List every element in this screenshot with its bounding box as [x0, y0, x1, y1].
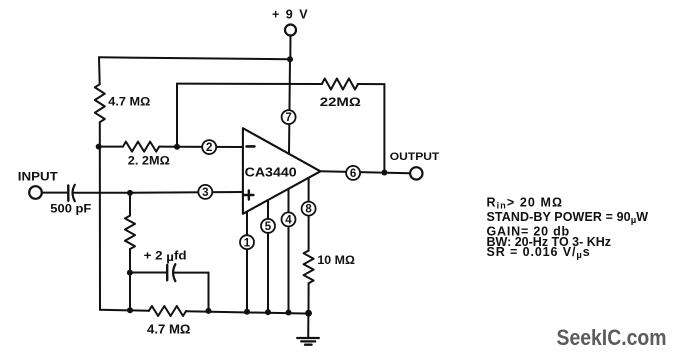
wire: left rail lower segment down to bottom rail corner — [99, 122, 101, 310]
wire: pin 4 vertical from op-amp bottom edge to rail — [288, 189, 290, 313]
wire: node down to bottom rail — [129, 273, 131, 311]
resistor 22M (horizontal, feedback) — [322, 79, 358, 90]
wire: feedback riser from inverting node up — [176, 84, 178, 147]
wire: 2.2M to inverting node — [159, 146, 177, 148]
wire: cap branch node to 2uF cap — [130, 272, 166, 274]
junction dot bottom rail at x=130 — [127, 307, 133, 313]
wire: left rail upper segment — [98, 57, 101, 84]
svg-text:2. 2MΩ: 2. 2MΩ — [128, 153, 170, 167]
pin 1 circle — [240, 235, 254, 249]
capacitor 2uF left plate — [166, 265, 168, 280]
op-amp minus sign — [247, 145, 255, 148]
svg-text:1: 1 — [244, 237, 251, 249]
wire: bottom rail left segment — [100, 309, 149, 312]
resistor 2.2M (horizontal) — [123, 142, 159, 152]
op-amp U1 triangle CA3440 — [243, 128, 321, 214]
wire: pin 8 vertical from op-amp bottom edge to 10M — [308, 178, 310, 251]
svg-text:INPUT: INPUT — [18, 170, 59, 184]
pin 4 circle — [282, 212, 296, 226]
pin 3 circle — [198, 185, 212, 199]
ground symbol bars — [297, 338, 319, 345]
wire: op-amp output to pin 6 — [320, 171, 410, 173]
junction dot bottom rail at x=208.5 — [206, 308, 212, 314]
wire: 22M to feedback corner — [358, 83, 384, 85]
wire: pin 1 vertical from op-amp bottom edge to rail — [246, 212, 248, 312]
pin 8 circle — [302, 202, 316, 216]
svg-text:8: 8 — [305, 204, 312, 216]
svg-text:500 pF: 500 pF — [50, 204, 91, 216]
wire: pin 7 vertical from +9V node into op-amp top edge — [289, 59, 290, 153]
capacitor 500pF right plate (curved) — [73, 185, 75, 201]
capacitor 2uF right plate (curved) — [173, 264, 175, 281]
wire: cap to input node (crosses left rail, no dot) — [74, 192, 130, 194]
wire: feedback drop to output node — [383, 84, 385, 172]
wire: branch drop to bottom rail — [208, 273, 210, 311]
pin 7 circle — [282, 110, 296, 124]
svg-text:22MΩ: 22MΩ — [320, 95, 361, 109]
svg-text:2: 2 — [206, 142, 212, 154]
wire: +9V terminal stem down to top rail — [289, 36, 291, 60]
wire: input node riser down to mid resistor — [129, 193, 131, 216]
junction dot at output node — [381, 170, 387, 176]
terminal +9V circle — [285, 25, 296, 36]
wire: mid resistor to cap branch node — [129, 249, 131, 273]
wire: inverting node to pin 2 and op-amp minus input — [177, 146, 243, 148]
junction dot bottom rail ground node — [305, 310, 312, 317]
wire: ground stem — [307, 313, 309, 337]
svg-text:Rin> 20 MΩ: Rin> 20 MΩ — [487, 196, 564, 211]
wire: input node to pin 3 and op-amp plus input — [130, 191, 243, 194]
op-amp plus sign — [244, 190, 253, 199]
pin 6 circle — [346, 166, 360, 180]
wire: 2uF cap to right corner of branch — [174, 272, 209, 274]
svg-text:10 MΩ: 10 MΩ — [317, 253, 355, 267]
resistor 4.7M top-left (vertical) — [95, 84, 105, 122]
svg-text:4.7 MΩ: 4.7 MΩ — [147, 323, 191, 337]
svg-text:SR = 0.016 V/µs: SR = 0.016 V/µs — [487, 245, 591, 261]
wire: feedback horizontal run to 22M (crosses pin7 line, no dot) — [177, 83, 322, 85]
wire: stub from left rail to 2.2M resistor — [99, 146, 123, 148]
svg-text:+ 9 V: + 9 V — [272, 8, 309, 22]
resistor (unlabeled, vertical mid) — [125, 216, 135, 249]
terminal INPUT circle — [29, 186, 42, 199]
svg-text:SeekIC.com: SeekIC.com — [557, 325, 667, 350]
svg-text:4: 4 — [285, 215, 292, 227]
svg-text:+ 2 µfd: + 2 µfd — [144, 250, 187, 264]
junction dot bottom rail pin4 — [286, 310, 292, 316]
pin 5 circle — [261, 219, 275, 233]
svg-text:6: 6 — [350, 168, 356, 180]
svg-text:OUTPUT: OUTPUT — [390, 151, 440, 163]
junction dot at cap branch node — [127, 270, 133, 276]
svg-text:CA3440: CA3440 — [245, 164, 297, 179]
svg-text:4.7 MΩ: 4.7 MΩ — [108, 95, 150, 109]
svg-text:7: 7 — [285, 112, 291, 124]
resistor 10M (vertical) — [304, 251, 314, 284]
junction dot bottom rail pin5 — [265, 309, 271, 315]
wire: input terminal to coupling cap — [42, 192, 68, 194]
junction dot at input node — [127, 190, 133, 196]
junction dot at left rail / 2.2M branch — [96, 144, 102, 150]
resistor 4.7M bottom (horizontal) — [149, 306, 186, 316]
junction dot at +9V rail node — [287, 56, 293, 62]
junction dot bottom rail pin1 — [244, 309, 250, 315]
wire: 10M to bottom rail — [308, 283, 310, 313]
wire: pin 5 vertical from op-amp bottom edge to rail — [267, 200, 269, 312]
capacitor 500pF left plate — [67, 186, 69, 201]
terminal OUTPUT circle — [410, 167, 422, 179]
wire: bottom rail right segment to ground node — [186, 311, 311, 313]
pin 2 circle — [202, 140, 216, 154]
svg-text:3: 3 — [202, 187, 208, 199]
junction dot at inverting node — [174, 144, 180, 150]
wire: top supply rail from left rail to +9V node — [99, 57, 290, 59]
svg-text:5: 5 — [265, 221, 272, 233]
